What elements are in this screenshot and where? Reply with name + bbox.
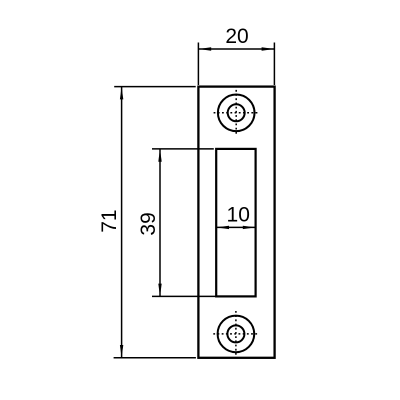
dim 71 bottom arrowhead <box>120 345 123 358</box>
dim 39 top arrowhead <box>158 149 161 162</box>
dim 20 dimension line <box>198 48 274 50</box>
dim 39 top extension line <box>152 148 214 150</box>
dim 39 bottom extension line <box>152 295 217 297</box>
dim 10 dimension line <box>216 226 255 228</box>
svg-text:39: 39 <box>137 212 160 235</box>
bottom hole horizontal centerline <box>213 333 258 335</box>
top screw hole inner circle <box>228 104 245 121</box>
dim 71 top extension line <box>114 86 196 88</box>
top hole horizontal centerline <box>214 112 259 114</box>
bottom screw hole outer circle <box>218 316 255 353</box>
dim 71 top arrowhead <box>120 87 123 100</box>
dim 10 left arrowhead <box>216 226 229 229</box>
dim 20 right extension line <box>273 43 275 86</box>
dim 71 bottom extension line <box>114 357 196 359</box>
plate outline <box>198 87 274 358</box>
svg-text:10: 10 <box>227 203 250 226</box>
slot (latch opening) <box>216 149 255 297</box>
svg-text:20: 20 <box>225 25 248 48</box>
svg-text:71: 71 <box>98 209 121 232</box>
top screw hole outer circle <box>218 95 255 132</box>
top hole vertical centerline <box>235 90 237 136</box>
dim 39 dimension line <box>159 149 161 297</box>
dim 39 bottom arrowhead <box>158 284 161 297</box>
bottom screw hole inner circle <box>227 325 244 342</box>
dim 20 left arrowhead <box>198 47 211 50</box>
bottom hole vertical centerline <box>235 311 237 357</box>
dim 71 dimension line <box>121 87 123 358</box>
dim 20 right arrowhead <box>262 47 275 50</box>
dim 10 right arrowhead <box>243 226 256 229</box>
dim 20 left extension line <box>197 43 199 86</box>
